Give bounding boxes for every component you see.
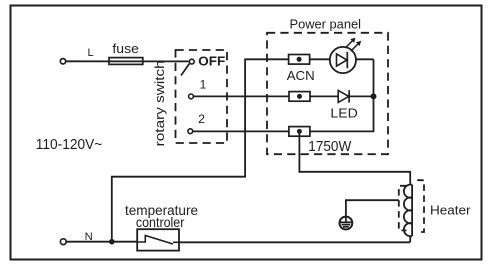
wire to diode LED [310,95,338,97]
svg-text:controler: controler [136,215,185,230]
dot 1750W link [297,129,302,134]
svg-text:ACN: ACN [287,68,315,83]
thermal link 1750W [289,127,310,137]
ground symbol [340,217,353,230]
svg-text:Heater: Heater [430,203,471,218]
switch lever [181,64,189,76]
LED lamp D1 [330,47,356,73]
rotary switch dashed box [176,50,228,143]
wire diode to junction [349,95,373,97]
ground wire [346,200,399,215]
switch contact 2 [188,129,193,134]
wire controller to heater bottom [179,241,410,243]
terminal L [60,59,65,64]
heater coil core line [411,185,413,236]
svg-text:Power panel: Power panel [290,17,362,32]
svg-text:LED: LED [330,106,358,121]
wire lamp to right bus [356,58,374,60]
LED arrowheads [350,38,355,43]
svg-text:OFF: OFF [198,54,225,69]
svg-text:N: N [85,231,93,243]
svg-text:2: 2 [198,112,205,126]
junction dot right bus [371,93,377,99]
LED arrows [345,39,354,48]
svg-text:1: 1 [199,78,206,92]
wire to LED lamp [310,58,330,60]
svg-text:110-120V~: 110-120V~ [36,137,103,153]
temperature controller box [137,229,179,250]
heater sheath bracket left [399,186,407,231]
svg-text:L: L [88,47,94,59]
switch contact 1 [189,94,194,99]
junction dot N [109,239,115,245]
thermal link row2 [289,92,310,102]
dot ACN link [297,57,302,62]
power panel dashed box [267,33,388,154]
wire contact 2 to 1750W row [193,130,289,132]
wire N to controller [67,241,138,243]
svg-text:1750W: 1750W [308,139,351,155]
dot row2 link [297,94,302,99]
wire 1750W to heater top [299,131,410,183]
fuse F1 [109,58,143,65]
svg-text:rotary switch: rotary switch [152,60,167,146]
wire ACN row to N junction [112,59,289,241]
terminal N [60,239,66,245]
wire L to fuse to switch [66,60,189,62]
switch contact OFF [189,59,194,64]
wire contact 1 to lamp row [194,95,289,97]
heater coil [404,183,412,242]
thermal link ACN [289,55,310,65]
right bus wire [310,59,374,131]
thermostat contact [137,236,173,245]
heater sheath bracket right [417,180,424,232]
diode LED [338,90,349,102]
svg-text:fuse: fuse [112,41,138,56]
